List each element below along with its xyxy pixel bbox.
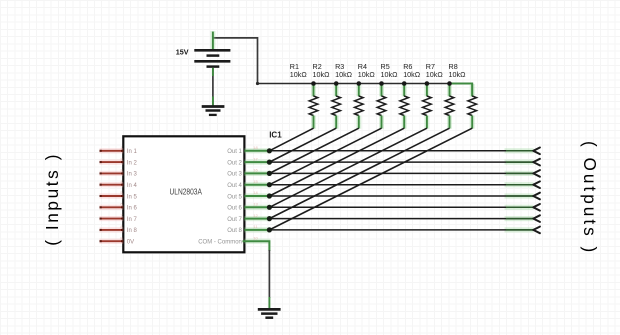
svg-text:12: 12 <box>253 213 258 218</box>
svg-text:COM - Common: COM - Common <box>198 240 242 246</box>
svg-text:In 5: In 5 <box>127 194 138 200</box>
svg-text:17: 17 <box>253 156 258 161</box>
svg-text:In 2: In 2 <box>127 160 138 166</box>
svg-text:14: 14 <box>253 190 258 195</box>
svg-text:In 4: In 4 <box>127 183 138 189</box>
svg-text:10kΩ: 10kΩ <box>381 70 399 79</box>
svg-text:( Inputs ): ( Inputs ) <box>42 152 62 246</box>
svg-text:15: 15 <box>253 179 258 184</box>
svg-text:Out 8: Out 8 <box>227 228 242 234</box>
svg-text:10kΩ: 10kΩ <box>426 70 444 79</box>
svg-text:10kΩ: 10kΩ <box>358 70 376 79</box>
svg-text:10: 10 <box>253 235 258 240</box>
svg-text:( Outputs ): ( Outputs ) <box>580 141 600 255</box>
svg-text:Out 6: Out 6 <box>227 206 242 212</box>
svg-text:In 1: In 1 <box>127 149 138 155</box>
svg-text:Out 5: Out 5 <box>227 194 242 200</box>
svg-text:ULN2803A: ULN2803A <box>170 186 203 196</box>
svg-text:In 6: In 6 <box>127 206 138 212</box>
svg-text:16: 16 <box>253 168 258 173</box>
svg-text:10kΩ: 10kΩ <box>313 70 331 79</box>
svg-text:10kΩ: 10kΩ <box>403 70 421 79</box>
svg-text:Out 2: Out 2 <box>227 160 242 166</box>
svg-text:In 7: In 7 <box>127 217 138 223</box>
svg-text:Out 1: Out 1 <box>227 149 242 155</box>
svg-text:In 8: In 8 <box>127 228 138 234</box>
svg-text:18: 18 <box>253 145 258 150</box>
svg-text:Out 3: Out 3 <box>227 172 242 178</box>
svg-text:Out 7: Out 7 <box>227 217 242 223</box>
svg-text:13: 13 <box>253 202 258 207</box>
svg-text:10kΩ: 10kΩ <box>449 70 467 79</box>
svg-text:0V: 0V <box>127 240 134 246</box>
svg-text:In 3: In 3 <box>127 172 138 178</box>
svg-text:IC1: IC1 <box>269 131 282 140</box>
svg-text:Out 4: Out 4 <box>227 183 242 189</box>
svg-text:10kΩ: 10kΩ <box>290 70 308 79</box>
svg-text:10kΩ: 10kΩ <box>335 70 353 79</box>
svg-text:15V: 15V <box>176 48 189 57</box>
